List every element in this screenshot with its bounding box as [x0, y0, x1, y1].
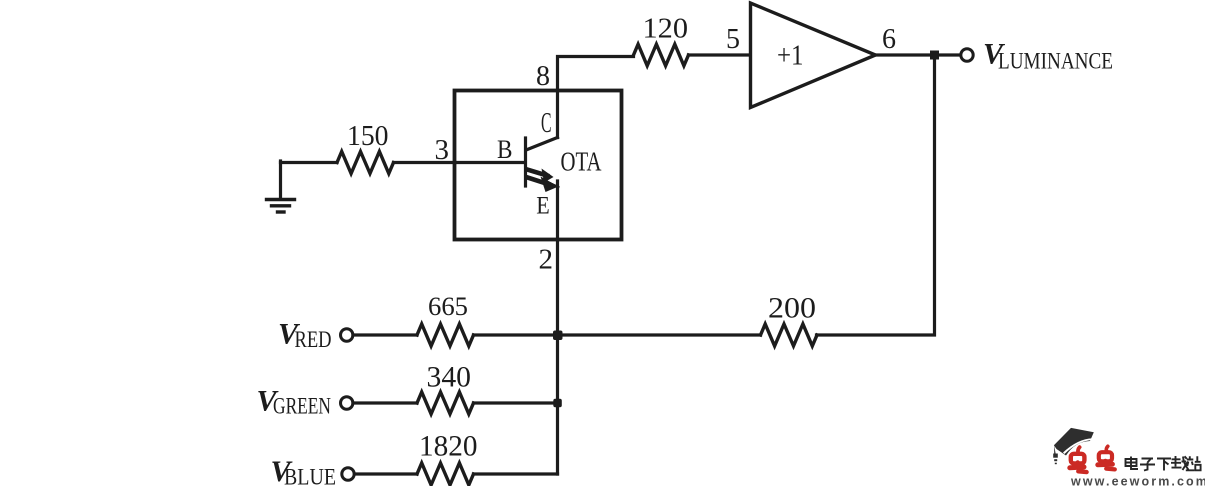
svg-text:8: 8 [536, 61, 550, 92]
op-amp U2 (+1 buffer) [751, 3, 876, 108]
wire R665 to node A [474, 333, 558, 336]
wire V_BLUE to R1820 [355, 472, 418, 475]
svg-text:B: B [497, 135, 513, 164]
terminal V_LUMINANCE [961, 49, 973, 61]
watermark text 电子下载站 [1126, 456, 1201, 471]
resistor 200 [761, 324, 818, 346]
terminal V_BLUE [342, 468, 354, 480]
wire R150 to pin 3 of OTA box [394, 161, 456, 164]
svg-text:C: C [541, 108, 552, 139]
wire V_RED to R665 [353, 333, 417, 336]
wire R200 to node A [558, 333, 761, 336]
svg-text:3: 3 [434, 134, 449, 166]
svg-text:RED: RED [295, 327, 332, 352]
svg-text:665: 665 [428, 292, 468, 321]
svg-text:LUMINANCE: LUMINANCE [998, 49, 1113, 74]
wire collector pin 8 to R120 [558, 57, 634, 138]
svg-text:340: 340 [427, 362, 472, 394]
junction node B (green row) [553, 399, 562, 408]
wire R1820 to bus [474, 472, 558, 475]
svg-text:2: 2 [539, 244, 554, 276]
wire right bus down from output [817, 55, 935, 335]
resistor 150 [337, 152, 394, 174]
transistor Q1 (OTA) [526, 138, 559, 193]
wire emitter pin 2 bus down [556, 181, 559, 474]
svg-text:GREEN: GREEN [273, 394, 331, 419]
wire R340 to node B [474, 401, 558, 404]
svg-text:6: 6 [882, 24, 896, 55]
ground [267, 161, 295, 212]
junction output node [930, 51, 939, 60]
junction node A (red row) [553, 331, 563, 341]
svg-text:E: E [536, 192, 550, 219]
terminal V_GREEN [341, 397, 353, 409]
svg-text:150: 150 [347, 121, 389, 152]
wire base [455, 161, 525, 164]
svg-text:www.eeworm.com: www.eeworm.com [1070, 475, 1205, 487]
resistor 665 [417, 324, 474, 346]
wire op-amp output pin 6 [876, 53, 962, 56]
wire ground to R 150 [281, 161, 338, 164]
OTA block box U1 [455, 91, 622, 240]
svg-text:120: 120 [643, 14, 689, 45]
resistor 120 [634, 44, 689, 66]
svg-text:5: 5 [726, 24, 740, 55]
resistor 340 [417, 392, 474, 414]
svg-text:OTA: OTA [561, 146, 602, 177]
watermark logo: graduation cap [1053, 428, 1094, 464]
wire V_GREEN to R340 [353, 401, 417, 404]
wire R120 to op-amp pin 5 [689, 53, 751, 56]
svg-text:BLUE: BLUE [284, 464, 336, 486]
svg-text:1820: 1820 [419, 431, 478, 463]
watermark red char 虫 #1 [1070, 447, 1087, 472]
svg-text:+1: +1 [777, 40, 804, 72]
watermark red char 虫 #2 [1098, 446, 1115, 469]
terminal V_RED [341, 329, 353, 341]
resistor 1820 [417, 463, 474, 485]
svg-text:200: 200 [768, 292, 816, 325]
